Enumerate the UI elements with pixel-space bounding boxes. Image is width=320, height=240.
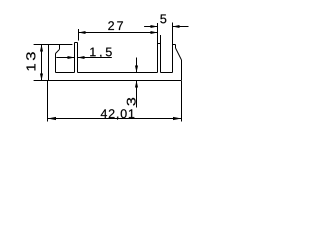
dim 27/5 shared ext (tab2 left ext) — [157, 23, 159, 44]
left wall inner face lower — [55, 54, 57, 73]
left wall inner chamfer — [56, 49, 60, 53]
profile top edge (13-ext + left wall top + web) — [34, 44, 73, 46]
right wall top cap — [173, 44, 176, 46]
arrow 1,5 right (points left) — [78, 56, 85, 59]
right wall outer chamfer — [176, 48, 182, 60]
arrow 42,01 right — [173, 117, 182, 120]
tab2 top cap — [158, 43, 161, 45]
dim 42,01 ext left — [47, 81, 49, 122]
tab2 left face — [157, 44, 159, 73]
arrow 3 top (down) — [135, 66, 138, 73]
right wall inner face — [172, 45, 174, 73]
base top (middle) — [78, 72, 158, 74]
arrow 3 bottom (up) — [135, 81, 138, 88]
text 42,01 — [101, 109, 135, 119]
text 3 (rotated) — [127, 98, 136, 106]
tab1 left face — [74, 43, 76, 73]
arrow 42,01 left — [48, 117, 57, 120]
arrow 1,5 left (points right) — [68, 56, 75, 59]
base bottom (incl. 13-ext) — [34, 80, 182, 82]
arrow 27 left — [79, 31, 86, 34]
arrow 5 left (points right) — [151, 25, 158, 28]
tab2 right face — [160, 44, 162, 73]
text 27 — [108, 21, 123, 30]
right wall outer face upper — [175, 45, 177, 49]
dim 5 line left tail — [144, 26, 157, 28]
dim 42,01 line — [48, 118, 182, 120]
dim 13 line — [41, 45, 43, 81]
text 13 digit 1 (rotated) — [27, 64, 36, 70]
tab2 right face ext stub — [160, 35, 162, 44]
dim 5 ext right (right wall ext) — [172, 23, 174, 45]
base top (slot bottom, left) — [56, 72, 75, 74]
dim 5 line right tail — [173, 26, 189, 28]
dim 1,5 line left tail — [56, 57, 74, 59]
profile right edge — [181, 60, 183, 81]
arrow 27 right — [151, 31, 158, 34]
dim 42,01 ext right — [181, 81, 183, 122]
text 1,5 — [90, 48, 112, 58]
arrow 13 top (up) — [40, 45, 43, 52]
technical drawing: aluminium profile cross-section with dimensions — [0, 0, 227, 132]
dim 3 line lower — [136, 81, 138, 108]
text 5 — [160, 14, 166, 23]
dim 27 ext left — [78, 29, 80, 41]
left wall inner face upper — [59, 45, 61, 50]
arrow 5 right (points left) — [173, 25, 180, 28]
dim 1,5 line right tail — [78, 57, 112, 59]
text 13 digit 3 (rotated) — [26, 52, 35, 60]
dim 3 line upper — [136, 58, 138, 73]
tab1 top cap — [75, 42, 78, 44]
left wall outer face / profile left edge — [48, 45, 50, 81]
arrow 13 bottom (down) — [40, 74, 43, 81]
base top (right) — [161, 72, 173, 74]
tab1 right face — [77, 43, 79, 73]
dim 27 line — [79, 32, 158, 34]
